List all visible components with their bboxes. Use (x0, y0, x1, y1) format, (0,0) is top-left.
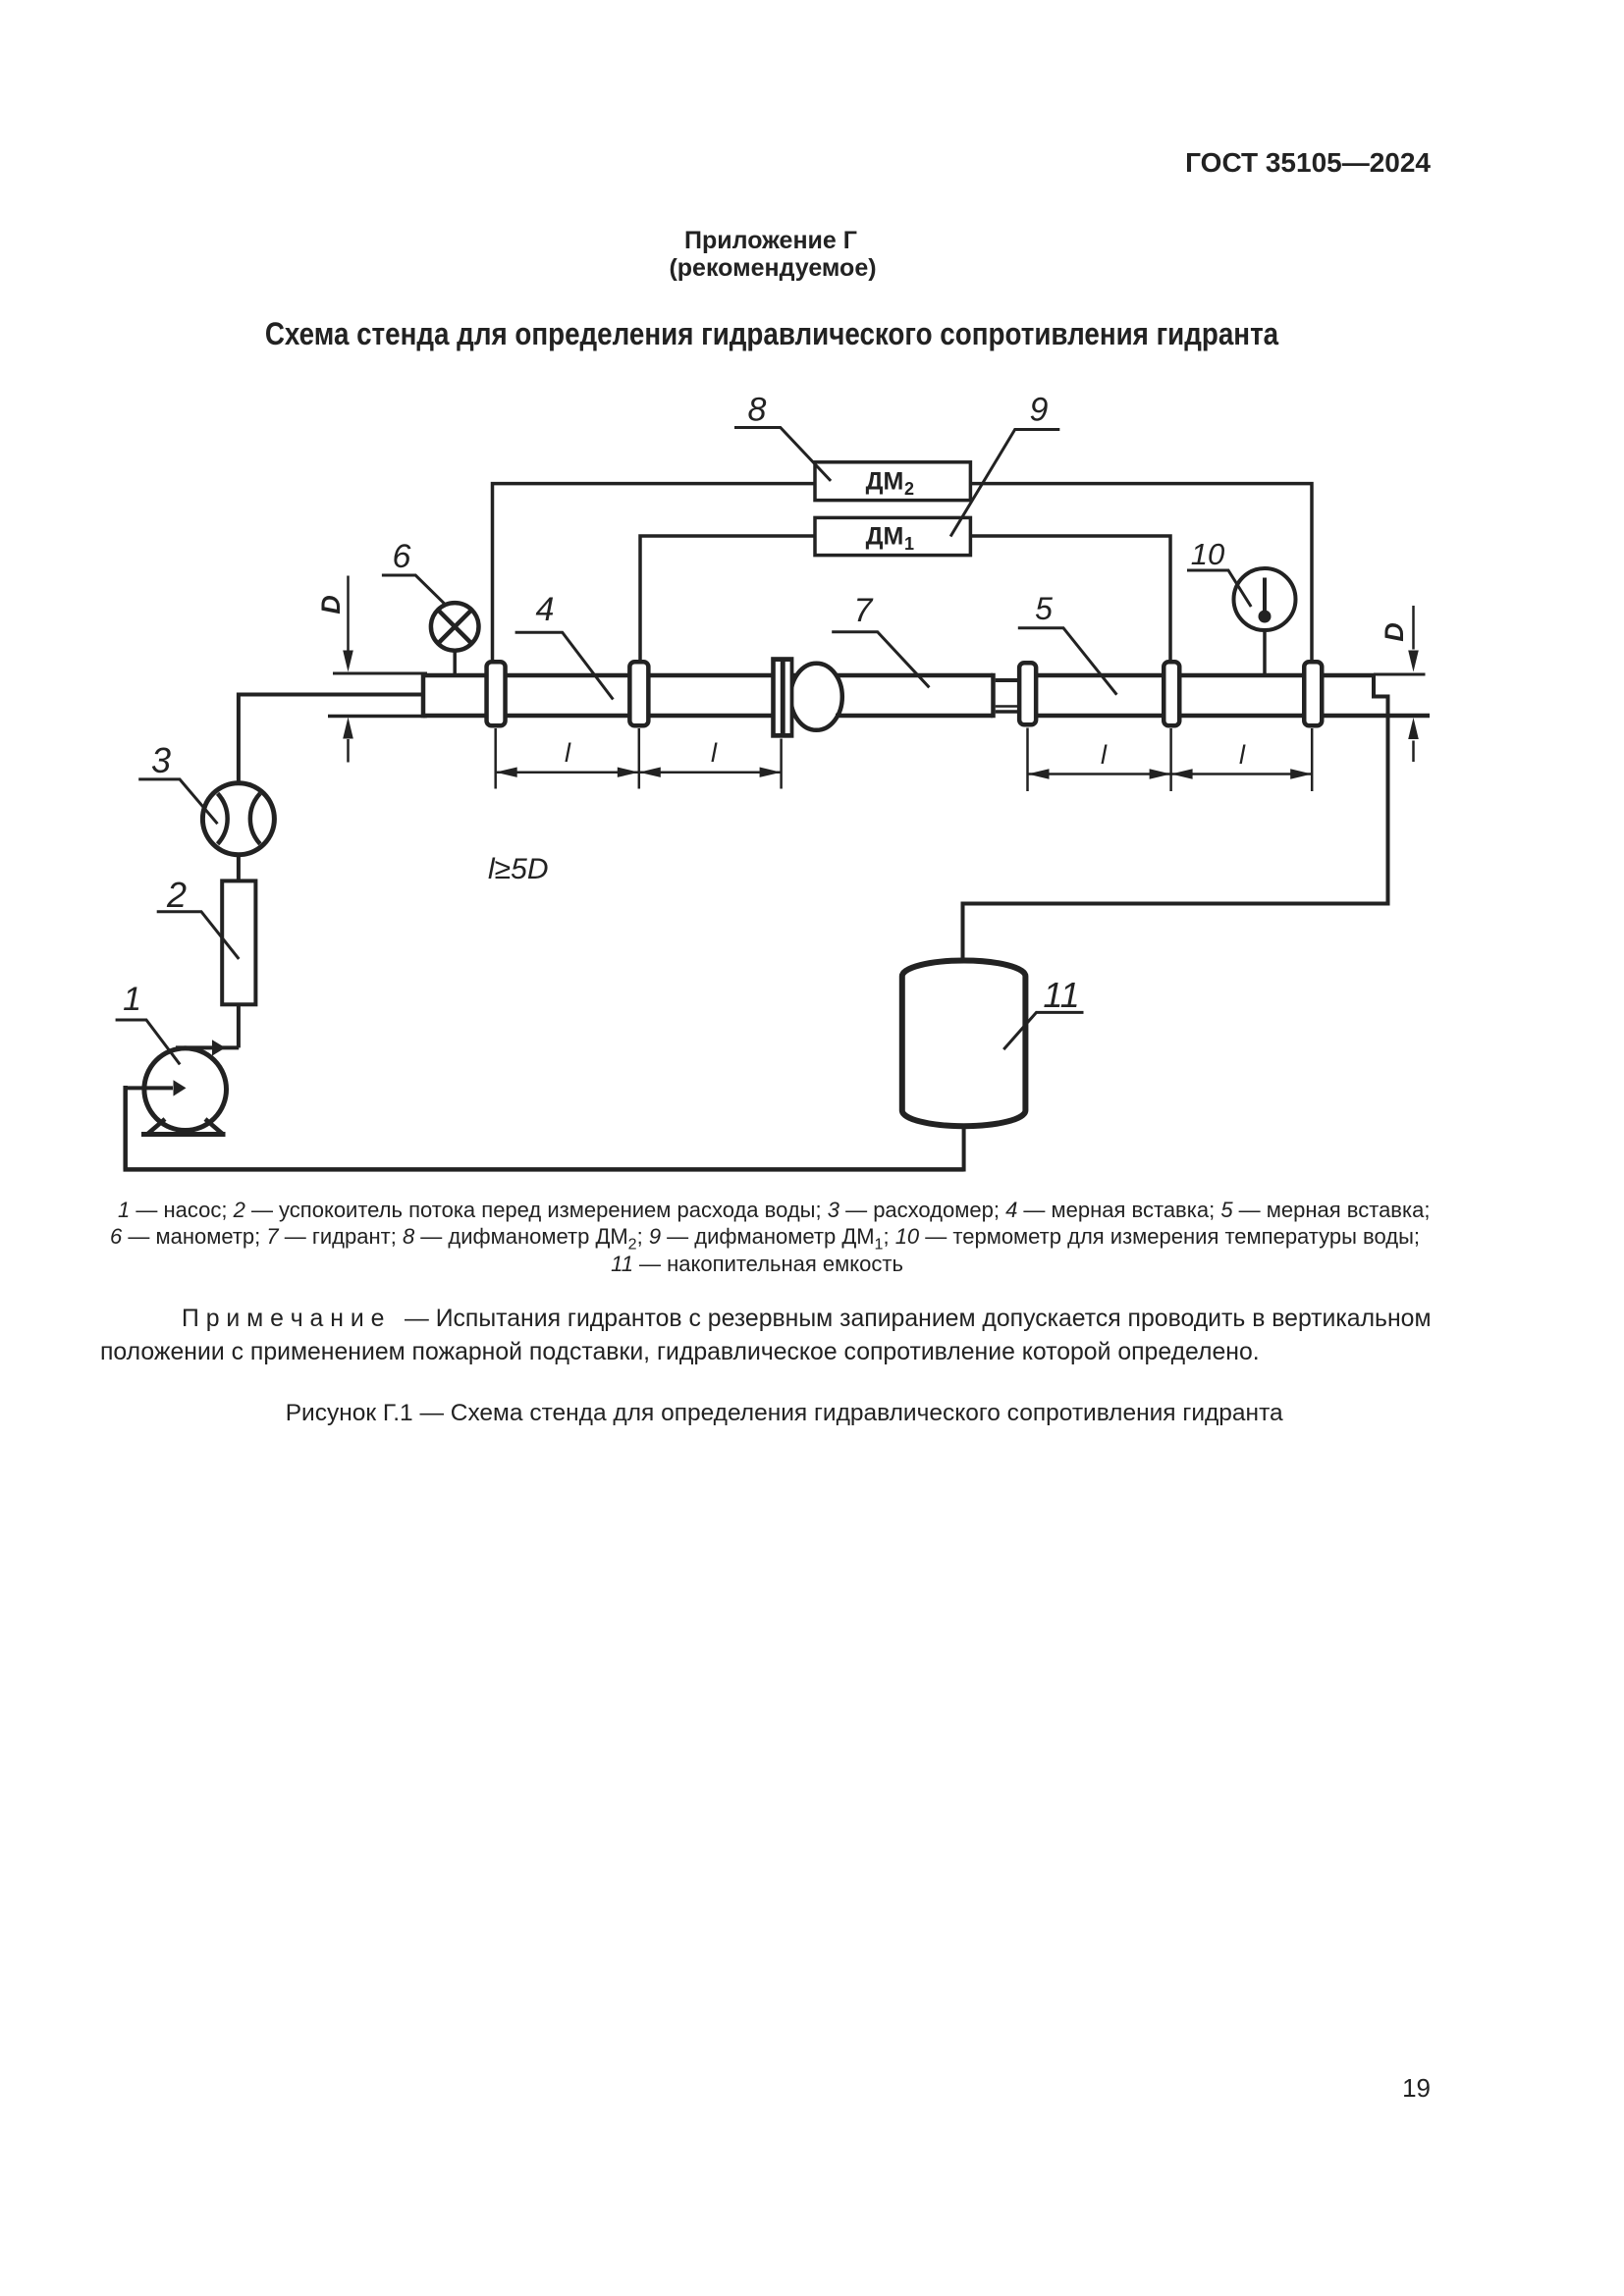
pipe right section (1021, 673, 1430, 716)
wire ДМ2 left (493, 484, 816, 660)
wire ДМ1 left (640, 536, 815, 660)
svg-text:9: 9 (1030, 392, 1049, 429)
label 4 (515, 591, 614, 700)
svg-text:4: 4 (536, 591, 555, 628)
label 1 (116, 981, 181, 1064)
svg-text:l: l (565, 738, 571, 768)
flange F1 (487, 662, 506, 725)
svg-text:1: 1 (123, 981, 141, 1018)
tank (11) (902, 961, 1026, 1127)
wire ДМ1 right (971, 536, 1171, 661)
label 7 (832, 592, 929, 687)
dimension l lines right (1028, 769, 1313, 778)
flow straightener (2) (222, 881, 255, 1004)
дифманометр ДМ2 (8) box (815, 462, 970, 501)
hydrant outlet neck (996, 680, 1017, 712)
note line 1 (182, 1308, 1432, 1332)
page number (1402, 2075, 1431, 2101)
wire straightener to pump outlet corner (237, 1004, 241, 1047)
labels l (565, 738, 1246, 770)
svg-text:l: l (1239, 740, 1246, 770)
label 2 (157, 875, 240, 959)
svg-text:10: 10 (1191, 537, 1224, 571)
svg-text:5: 5 (1035, 591, 1053, 626)
label 3 (138, 740, 217, 824)
wire flowmeter to straightener (237, 853, 241, 881)
svg-text:6: 6 (393, 538, 411, 575)
D dimension right (1408, 606, 1419, 762)
pump inlet riser (123, 1086, 128, 1169)
label 6 (382, 538, 446, 605)
flowmeter (3) (202, 783, 274, 855)
Приложение Г (684, 229, 857, 253)
flange F5 (1164, 662, 1179, 725)
svg-text:7: 7 (854, 592, 874, 629)
svg-text:D: D (1380, 622, 1409, 642)
flange F4 (1019, 663, 1036, 724)
svg-text:l: l (1101, 740, 1108, 770)
svg-text:11: 11 (1043, 975, 1079, 1015)
svg-text:D: D (316, 595, 346, 614)
D dimension left (343, 576, 353, 763)
svg-text:l≥5D: l≥5D (488, 853, 548, 885)
hydrant body (7) (836, 673, 994, 719)
pump (1) (126, 1040, 240, 1134)
figure caption (286, 1402, 1283, 1426)
svg-text:3: 3 (151, 740, 171, 780)
flange F2 (629, 662, 648, 725)
svg-text:2: 2 (166, 875, 187, 915)
label 8 (734, 392, 831, 481)
legend line 2 (110, 1226, 1420, 1253)
(рекомендуемое) (669, 256, 876, 281)
wire ДМ2 right (971, 484, 1313, 661)
svg-text:ДМ: ДМ (866, 468, 904, 496)
D top extension left (333, 672, 427, 675)
note line 2 (100, 1341, 1260, 1365)
dimension l lines left (496, 768, 782, 777)
thermometer (10) (1234, 568, 1296, 674)
legend line 1 (118, 1200, 1430, 1221)
tank outlet stub (962, 1123, 966, 1172)
svg-text:2: 2 (904, 479, 914, 499)
flange F6 (1304, 662, 1322, 725)
label 5 (1018, 591, 1117, 695)
svg-text:l: l (711, 738, 718, 768)
D top extension right (1374, 673, 1426, 676)
manometer (6) (431, 603, 479, 674)
inlet narrow pipe bottom / D bottom extension (328, 715, 427, 719)
pipe left section (423, 673, 795, 719)
label 11 (1003, 975, 1083, 1049)
double flange (hydrant inlet) (771, 657, 793, 738)
svg-text:1: 1 (904, 534, 914, 554)
title (265, 318, 1278, 349)
outlet down pipe to tank (963, 697, 1388, 963)
bottom return wire (124, 1167, 964, 1172)
svg-text:8: 8 (748, 392, 767, 429)
hydrant bulge (790, 664, 842, 730)
label 9 (950, 392, 1059, 537)
legend line 3 (611, 1254, 903, 1275)
dimension extension lines below flanges (496, 728, 1312, 792)
svg-text:ДМ: ДМ (866, 523, 904, 551)
header ГОСТ 35105-2024 (1185, 149, 1431, 177)
inlet wire from flowmeter riser (239, 695, 423, 781)
label 10 (1187, 537, 1251, 607)
дифманометр ДМ1 (9) box (815, 517, 970, 555)
